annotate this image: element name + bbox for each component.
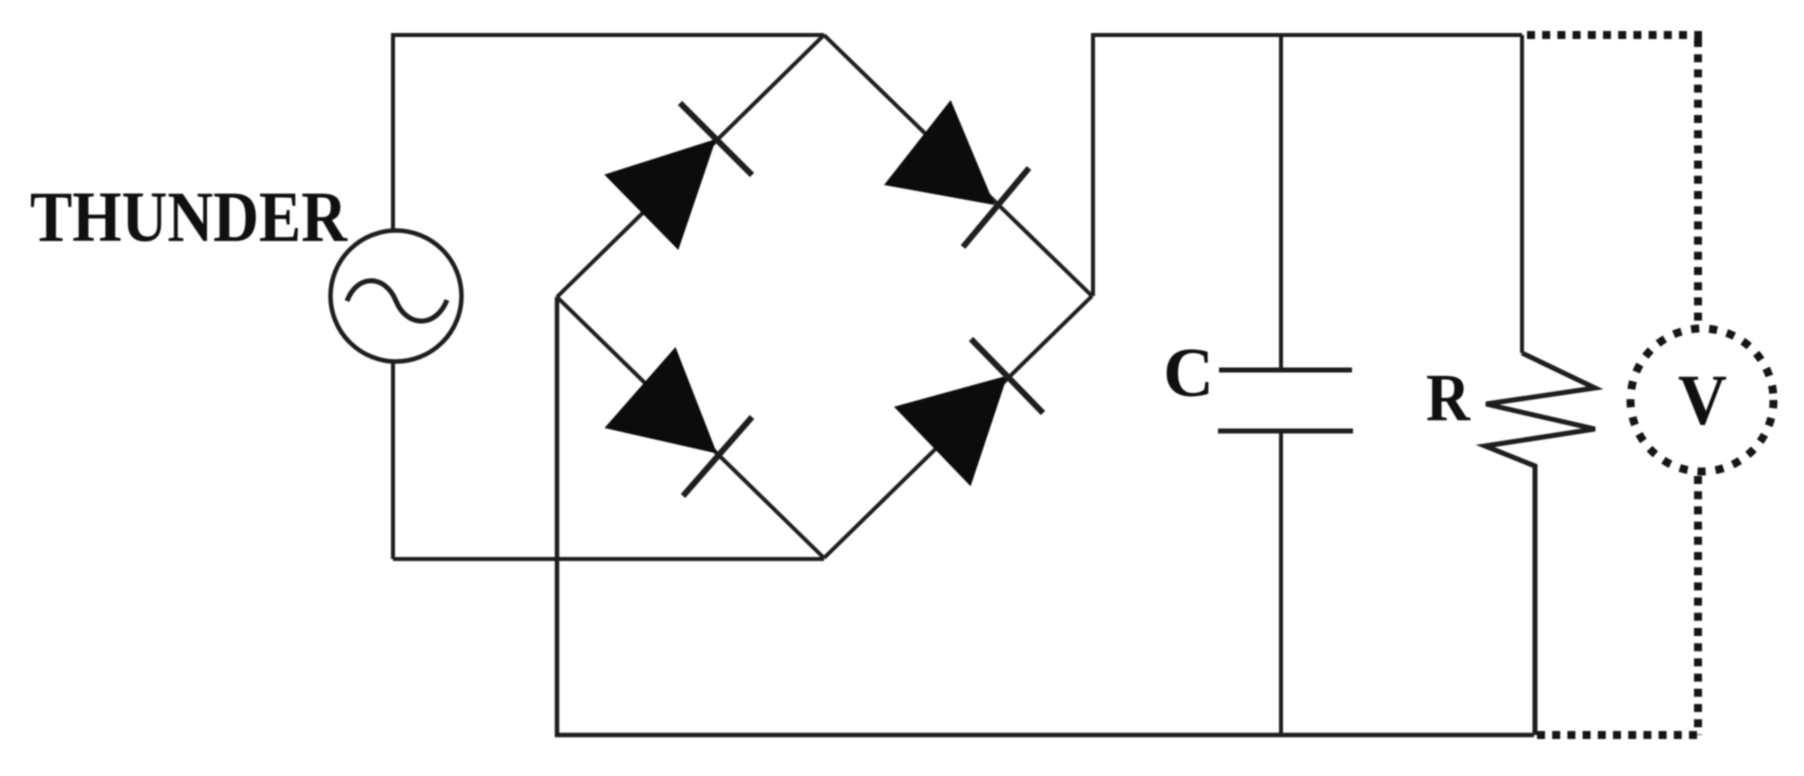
svg-text:C: C [1163, 335, 1214, 412]
svg-text:THUNDER: THUNDER [30, 178, 348, 257]
svg-text:V: V [1678, 360, 1727, 440]
svg-text:R: R [1426, 360, 1471, 436]
